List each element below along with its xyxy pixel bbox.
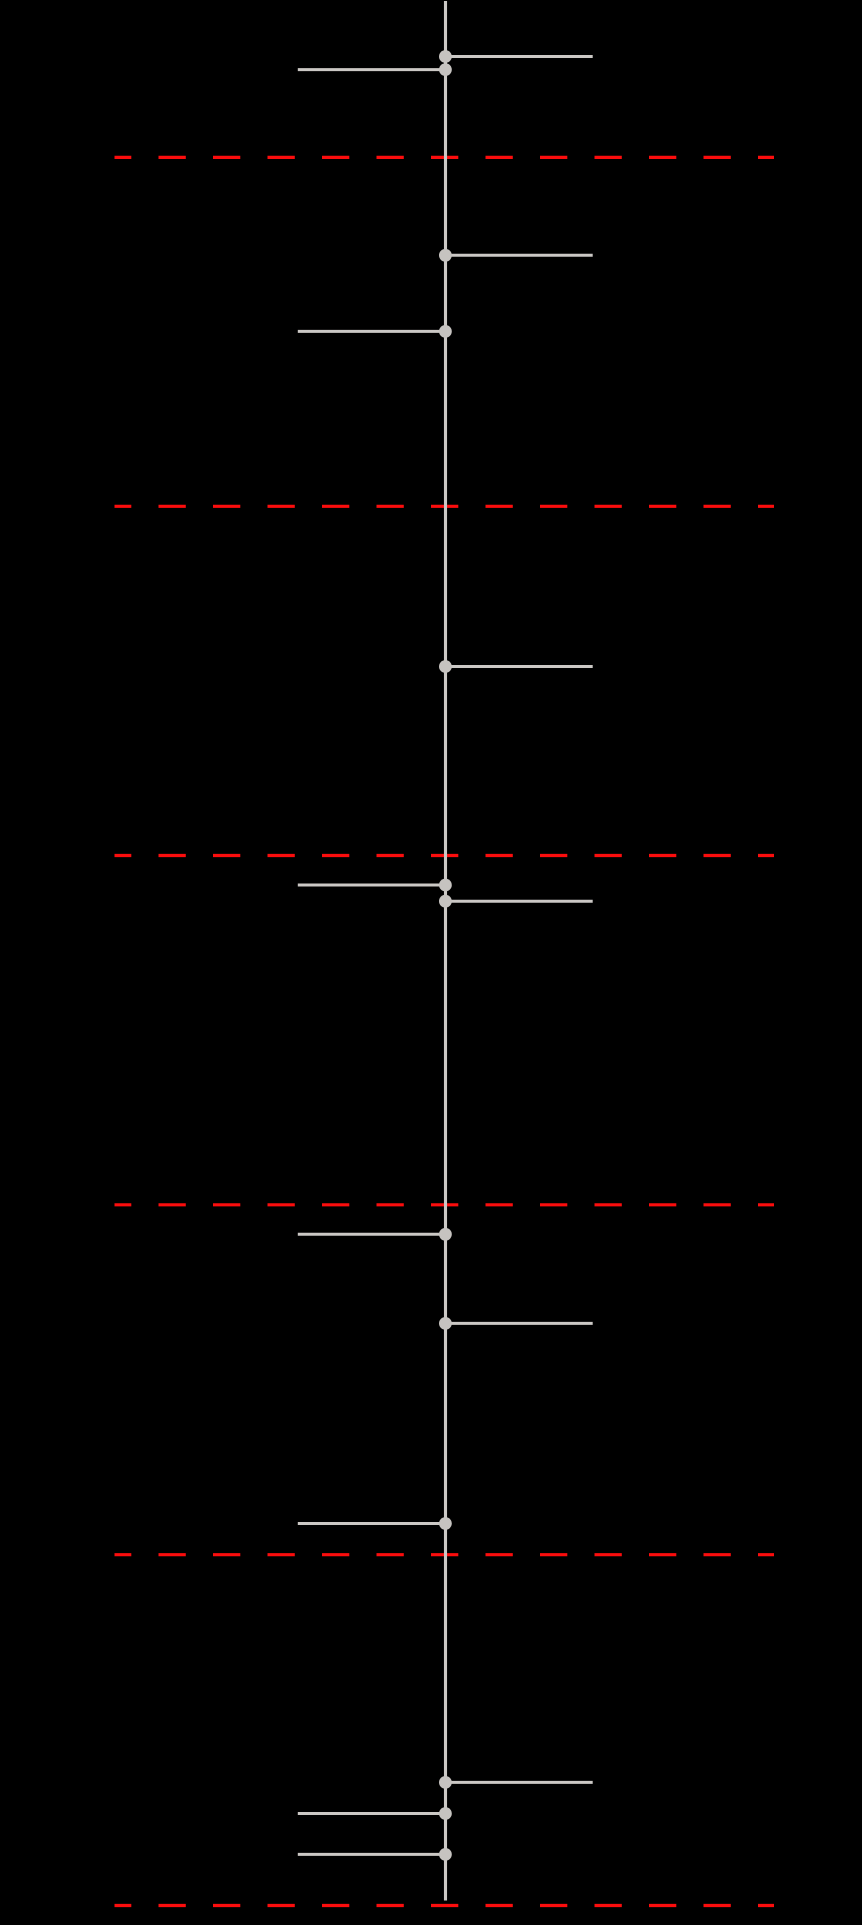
leader line right, event 1 <box>446 55 593 58</box>
event dot 3 <box>439 249 452 262</box>
leader line left, event 13 <box>298 1853 446 1856</box>
event dot 9 <box>439 1317 452 1330</box>
vertical timeline axis <box>444 1 447 1901</box>
event dot 12 <box>439 1807 452 1820</box>
event dot 10 <box>439 1517 452 1530</box>
leader line left, event 6 <box>298 884 446 887</box>
red dashed gridline 1 <box>115 156 775 159</box>
leader line left, event 4 <box>298 330 446 333</box>
red dashed gridline 2 <box>115 505 775 508</box>
leader line right, event 3 <box>446 254 593 257</box>
event dot 8 <box>439 1228 452 1241</box>
event dot 5 <box>439 660 452 673</box>
red dashed gridline 5 <box>115 1553 775 1556</box>
leader line left, event 8 <box>298 1233 446 1236</box>
leader line right, event 7 <box>446 900 593 903</box>
event dot 2 <box>439 63 452 76</box>
event dot 4 <box>439 325 452 338</box>
red dashed gridline 3 <box>115 854 775 857</box>
event dot 1 <box>439 50 452 63</box>
red dashed gridline 4 <box>115 1203 775 1206</box>
leader line left, event 12 <box>298 1812 446 1815</box>
leader line right, event 9 <box>446 1322 593 1325</box>
leader line left, event 10 <box>298 1522 446 1525</box>
event dot 6 <box>439 879 452 892</box>
leader line right, event 11 <box>446 1781 593 1784</box>
event dot 13 <box>439 1848 452 1861</box>
event dot 11 <box>439 1776 452 1789</box>
red dashed gridline 6 <box>115 1904 775 1907</box>
event dot 7 <box>439 895 452 908</box>
leader line left, event 2 <box>298 68 446 71</box>
leader line right, event 5 <box>446 665 593 668</box>
